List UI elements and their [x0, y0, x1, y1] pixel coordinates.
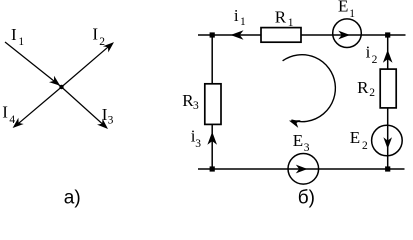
- arrowhead of loop arc: [288, 117, 301, 128]
- svg-text:2: 2: [372, 54, 378, 66]
- svg-text:б): б): [298, 188, 315, 209]
- svg-text:2: 2: [99, 36, 105, 48]
- svg-text:I: I: [11, 25, 17, 44]
- resistor R1: [261, 28, 301, 43]
- loop direction arc (clockwise): [283, 55, 336, 122]
- svg-text:R: R: [275, 7, 287, 26]
- svg-text:1: 1: [288, 17, 294, 29]
- svg-text:а): а): [64, 188, 81, 209]
- svg-text:R: R: [357, 78, 369, 97]
- node bottom-left: [210, 166, 215, 171]
- resistor R3: [205, 84, 221, 125]
- svg-text:2: 2: [362, 140, 368, 152]
- wire bottom side: [198, 168, 405, 170]
- svg-text:3: 3: [195, 138, 201, 150]
- svg-text:3: 3: [304, 142, 310, 154]
- svg-text:3: 3: [193, 100, 199, 112]
- wire I3 branch (node to bottom-right): [62, 87, 107, 128]
- node top-left: [210, 32, 215, 37]
- wire left side: [211, 35, 213, 169]
- arrowhead current i2 (points up): [383, 50, 393, 63]
- arrowhead I4: [10, 118, 24, 131]
- svg-text:1: 1: [240, 16, 246, 28]
- EMF source E3 circle: [288, 154, 319, 185]
- svg-text:1: 1: [18, 36, 24, 48]
- svg-text:4: 4: [9, 114, 15, 126]
- arrowhead current i1 (points left): [231, 30, 244, 40]
- wire I4 branch (node to bottom-left): [15, 87, 62, 127]
- node top-right: [385, 32, 390, 37]
- svg-text:1: 1: [349, 8, 355, 20]
- wire top side: [198, 34, 406, 36]
- EMF source E2 circle: [372, 125, 403, 156]
- svg-text:2: 2: [369, 87, 375, 99]
- arrowhead current i3 (points up): [207, 132, 217, 145]
- svg-text:I: I: [92, 25, 98, 44]
- svg-text:i: i: [234, 6, 239, 25]
- resistor R2: [380, 69, 396, 108]
- node bottom-right: [385, 166, 390, 171]
- svg-text:I: I: [2, 102, 8, 121]
- svg-text:E: E: [350, 128, 360, 147]
- EMF source E1 circle: [333, 19, 362, 48]
- node junction dot: [59, 85, 63, 89]
- wire I2 branch (node to top-right): [62, 43, 113, 87]
- arrowhead inside E3 (points right): [296, 165, 308, 174]
- wire right side: [387, 35, 389, 169]
- arrowhead inside E2 (points down): [383, 137, 392, 149]
- arrowhead I3: [97, 119, 111, 132]
- svg-text:E: E: [338, 0, 348, 16]
- wire I1 branch (top-left to node): [5, 42, 62, 87]
- svg-text:i: i: [366, 43, 371, 62]
- arrowhead I1 (points into node): [49, 76, 63, 89]
- svg-text:E: E: [293, 131, 303, 150]
- arrowhead I2: [103, 39, 117, 52]
- arrowhead inside E1 (points right): [338, 31, 350, 40]
- svg-text:3: 3: [108, 115, 114, 127]
